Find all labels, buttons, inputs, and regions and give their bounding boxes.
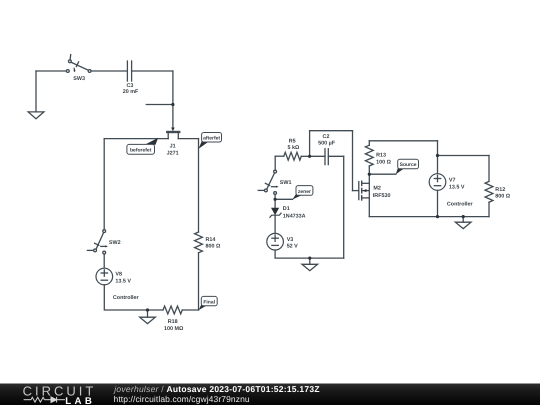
switch SW1 [258, 170, 278, 194]
wire gate lead [172, 105, 174, 128]
svg-text:SW3: SW3 [73, 76, 85, 82]
wire down to M2 gate [352, 131, 354, 191]
svg-text:SW2: SW2 [109, 240, 121, 246]
svg-text:C2: C2 [323, 134, 330, 140]
resistor R13 [365, 141, 373, 174]
logo squiggle [24, 397, 65, 403]
capacitor C2 [325, 149, 328, 165]
ground (mid) [302, 258, 318, 271]
ground (bottom-left) [140, 310, 156, 324]
wire V7 node to R12 [438, 155, 490, 157]
wire top of controller loop [369, 140, 437, 142]
wire node A to C2 [310, 155, 325, 157]
wire R14 to bottom [198, 253, 200, 310]
wire right rail down to R14 [198, 139, 200, 232]
svg-text:20 mF: 20 mF [123, 89, 139, 95]
switch SW3 [66, 55, 91, 73]
net flag Source [396, 159, 419, 174]
svg-text:800 Ω: 800 Ω [495, 194, 510, 200]
wire mid-left corner to R5 [275, 155, 284, 157]
svg-text:V3: V3 [287, 237, 294, 243]
svg-text:zener: zener [298, 189, 311, 195]
transistor J1 (p-JFET J271) [167, 128, 179, 139]
voltage source V3 [267, 233, 284, 250]
wire ground node to R18 [148, 309, 164, 311]
wire V3 to bottom [275, 250, 344, 258]
svg-text:J1: J1 [170, 143, 176, 149]
svg-text:Controller: Controller [113, 295, 140, 301]
wire left rail down to SW2 [103, 139, 105, 230]
svg-text:M2: M2 [373, 185, 381, 191]
wire V8 to bottom [104, 285, 147, 310]
svg-text:Source: Source [400, 162, 417, 168]
wire top loop [310, 130, 353, 132]
wire R5 to node A [301, 155, 309, 157]
resistor R12 [485, 156, 493, 217]
svg-text:R18: R18 [168, 319, 178, 325]
svg-text:R12: R12 [495, 187, 505, 193]
net flag afterfet [199, 133, 222, 149]
net flag beforefet [127, 138, 158, 154]
wire controller bottom [369, 216, 489, 218]
svg-text:joverhulser / Autosave 2023-07: joverhulser / Autosave 2023-07-06T01:52:… [113, 384, 319, 394]
svg-text:500 µF: 500 µF [318, 140, 336, 146]
svg-text:C3: C3 [126, 83, 133, 89]
wire down to gate node [172, 71, 174, 105]
svg-text:52 V: 52 V [287, 244, 298, 250]
svg-text:1N4733A: 1N4733A [283, 213, 306, 219]
wire zener node to flag [275, 198, 293, 200]
wire R18 to Final node [182, 309, 198, 311]
svg-text:IRF530: IRF530 [373, 193, 391, 199]
wire node A up [309, 131, 311, 157]
wire stub at gate node [146, 104, 173, 106]
wire SW2 to V8 [103, 254, 105, 268]
transistor M2 (NMOS IRF530) [359, 174, 370, 216]
wire J1 drain lead right [178, 138, 198, 140]
wire C3 to corner [132, 70, 173, 72]
svg-text:R13: R13 [376, 153, 386, 159]
wire J1 source lead left [104, 138, 168, 140]
footer bar [0, 384, 540, 405]
wire SW3 to C3 [91, 70, 127, 72]
voltage source V7 [429, 156, 446, 217]
svg-text:13.5 V: 13.5 V [115, 278, 131, 284]
wire down to V7 node [437, 141, 439, 156]
resistor R5 [284, 152, 302, 160]
wire R5 left down to SW1 [274, 156, 276, 170]
voltage source V8 [96, 268, 113, 285]
capacitor C3 [127, 61, 131, 81]
wire source node to flag [369, 173, 396, 175]
wire SW1 to zener node [274, 194, 276, 199]
svg-text:Controller: Controller [447, 202, 474, 208]
svg-text:13.5 V: 13.5 V [449, 184, 465, 190]
resistor R14 [195, 232, 203, 253]
svg-text:beforefet: beforefet [130, 148, 152, 154]
wire gate lead M2 [353, 190, 359, 192]
ground (right) [455, 217, 471, 229]
svg-text:100 Ω: 100 Ω [376, 160, 391, 166]
svg-text:5 kΩ: 5 kΩ [287, 145, 299, 151]
node junction dots [146, 103, 465, 312]
svg-text:http://circuitlab.com/cgwj43r7: http://circuitlab.com/cgwj43r79nznu [114, 394, 250, 404]
svg-text:R5: R5 [289, 139, 296, 145]
diode D1 (zener 1N4733A) [270, 199, 281, 233]
svg-text:R14: R14 [206, 237, 216, 243]
wire C2 right plate [328, 155, 343, 157]
resistor R18 [163, 306, 182, 314]
svg-text:D1: D1 [283, 206, 290, 212]
svg-text:afterfet: afterfet [203, 136, 220, 142]
net flag Final [199, 296, 218, 310]
svg-text:V7: V7 [449, 177, 456, 183]
net flag zener [292, 186, 313, 200]
svg-text:100 MΩ: 100 MΩ [164, 326, 184, 332]
svg-text:LAB: LAB [65, 396, 95, 405]
ground (top-left) [28, 71, 44, 119]
svg-text:800 Ω: 800 Ω [206, 244, 221, 250]
svg-text:V8: V8 [115, 272, 122, 278]
wire C2 right side down [343, 156, 345, 258]
wire ground to SW3 [36, 70, 66, 72]
svg-text:SW1: SW1 [280, 180, 292, 186]
svg-text:J271: J271 [167, 151, 179, 157]
svg-text:Final: Final [203, 299, 215, 305]
switch SW2 [87, 230, 107, 254]
